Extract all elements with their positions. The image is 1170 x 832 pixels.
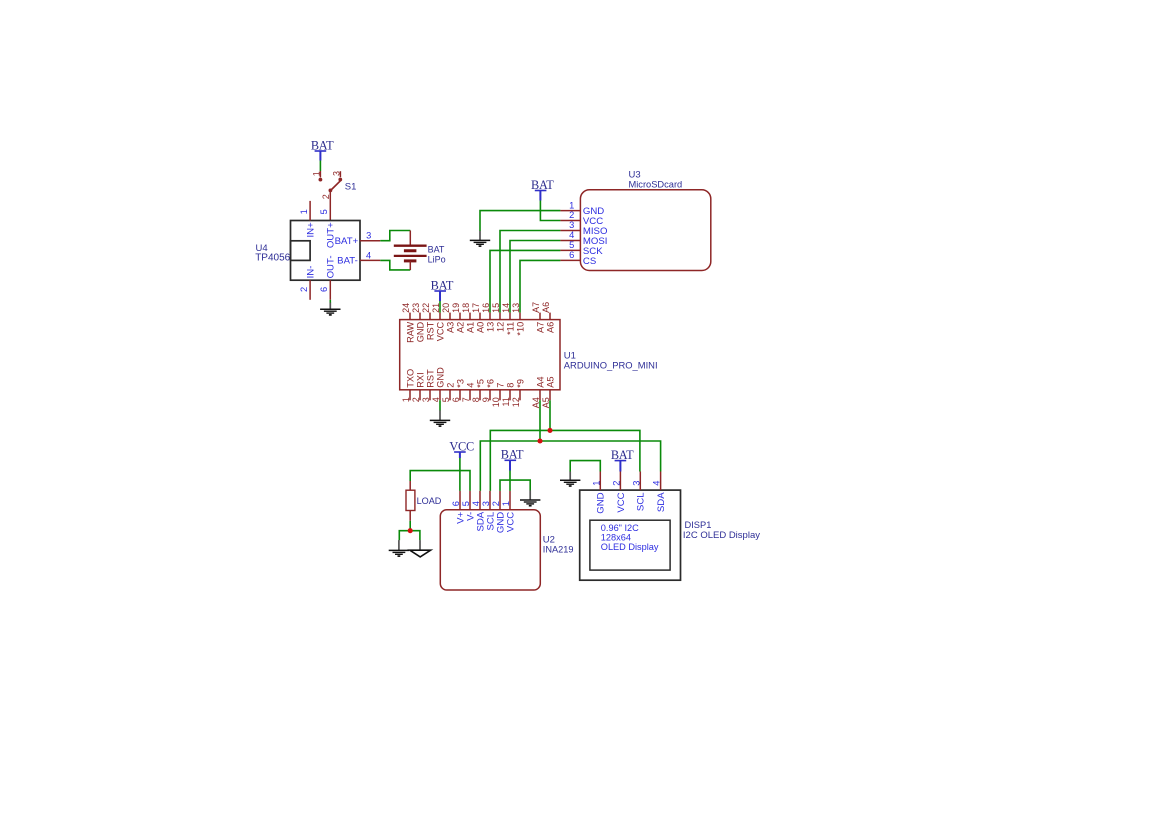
svg-text:CS: CS [583,256,596,267]
DISP1 value I2C OLED Display [683,530,760,541]
svg-text:LiPo: LiPo [428,255,446,265]
DISP1 pin 1 GND [591,472,606,514]
wire BAT flag to U3 VCC [540,201,560,221]
svg-text:*6: *6 [485,379,495,388]
svg-text:7: 7 [495,383,505,388]
U1 value ARDUINO_PRO_MINI [564,360,658,371]
wire LOAD bottom to grounds [399,521,420,541]
U2 value INA219 [543,544,574,554]
svg-text:VCC: VCC [435,321,445,341]
charger U4 body [291,221,361,281]
DISP1 pin 4 SDA [652,472,667,513]
svg-text:1: 1 [299,209,309,214]
U1 top pin 18 A1 [461,303,475,333]
svg-text:4: 4 [465,383,475,388]
U1 bottom pin 11 8 [501,383,515,407]
power flag BAT (mcu VCC) [431,278,454,301]
svg-text:2: 2 [321,194,331,199]
svg-text:BAT: BAT [311,138,334,152]
ground (power) triangle at LOAD [410,540,431,557]
U3 pin 1 GND [560,200,604,217]
wire U3 CS to U1 pin *10 [520,260,560,312]
resistor LOAD [406,481,442,521]
svg-text:ARDUINO_PRO_MINI: ARDUINO_PRO_MINI [564,360,658,371]
svg-text:TP4056: TP4056 [255,252,290,263]
svg-text:12: 12 [495,322,505,332]
wire U4 BAT- to battery - [380,260,410,270]
svg-text:4: 4 [569,230,574,240]
svg-text:6: 6 [569,250,574,260]
U1 top pin 21 VCC [431,303,445,341]
U4 pin 5 OUT+ [319,209,337,248]
svg-text:1: 1 [591,481,601,486]
svg-text:24: 24 [401,303,411,313]
svg-text:*10: *10 [515,322,525,336]
ground at U4 OUT- [320,303,340,315]
svg-text:10: 10 [491,397,501,407]
wire LOAD to U2 V- [410,471,470,491]
battery BAT LiPo [394,231,446,271]
U4 reference U4 [256,243,268,254]
U1 top pin A6 [541,302,555,333]
svg-text:5: 5 [441,397,451,402]
svg-text:S1: S1 [345,181,357,192]
svg-text:1: 1 [311,171,321,176]
svg-text:2: 2 [491,501,501,506]
svg-text:TXO: TXO [405,369,415,388]
U1 bottom pin 6 *3 [451,379,465,402]
svg-text:VCC: VCC [449,439,474,453]
svg-text:*5: *5 [475,379,485,388]
svg-text:OLED Display: OLED Display [601,542,659,552]
junction A5-SCL [547,428,552,433]
svg-text:A1: A1 [465,322,475,333]
wire U2 GND to ground [500,480,530,491]
svg-text:2: 2 [569,210,574,220]
power flag BAT (display) [611,448,634,472]
U1 bottom pin 3 RST [421,369,435,402]
SDA bus wire [480,441,660,491]
svg-text:VCC: VCC [616,492,627,512]
svg-text:3: 3 [569,220,574,230]
U1 bottom pin 5 2 [441,383,455,403]
U1 top pin 20 A3 [441,303,455,333]
power flag BAT (battery switch net) [311,138,334,160]
svg-text:DISP1: DISP1 [685,520,712,530]
svg-text:BAT: BAT [611,448,634,462]
wire U1 A4 to SDA bus [539,400,541,441]
svg-text:RAW: RAW [405,321,415,342]
svg-text:8: 8 [505,383,515,388]
wire U3 GND to ground [480,211,560,231]
U1 top pin 14 *11 [501,303,515,335]
U2 reference U2 [543,534,555,545]
U4 pin 1 IN+ [299,201,317,238]
wire U3 MOSI to U1 pin *11 [510,241,560,313]
svg-text:GND: GND [596,492,607,513]
svg-text:22: 22 [421,303,431,313]
svg-text:5: 5 [461,501,471,506]
svg-text:6: 6 [451,397,461,402]
svg-text:1: 1 [401,397,411,402]
svg-text:4: 4 [471,501,481,506]
svg-text:1: 1 [569,200,574,210]
U3 pin 2 VCC [560,210,603,227]
svg-text:5: 5 [319,209,329,214]
wire U4 BAT+ to battery + [380,231,410,241]
display DISP1 body [580,490,681,580]
U4 pin 3 BAT+ [335,231,381,247]
svg-text:13: 13 [485,322,495,332]
svg-text:BAT: BAT [431,278,454,292]
svg-text:4: 4 [366,250,371,260]
U1 bottom pin 10 7 [491,383,505,408]
svg-text:INA219: INA219 [543,544,574,554]
svg-text:4: 4 [652,481,662,486]
DISP1 pin 3 SCL [631,472,646,512]
wire U4 OUT- to ground [329,300,331,303]
power flag VCC [449,439,474,458]
svg-text:I2C OLED Display: I2C OLED Display [683,530,760,541]
svg-text:A2: A2 [455,322,465,333]
svg-text:BAT+: BAT+ [335,236,359,247]
svg-text:*3: *3 [455,379,465,388]
svg-text:6: 6 [319,287,329,292]
U2 pin 2 GND [491,491,506,533]
DISP1 pin 2 VCC [611,472,626,513]
SCL bus wire [490,430,640,491]
sensor U2 body [440,510,540,590]
U1 top pin 17 A0 [471,303,485,333]
U2 pin 1 VCC [501,491,516,532]
svg-text:2: 2 [411,397,421,402]
svg-text:13: 13 [511,303,521,313]
svg-text:RXI: RXI [415,372,425,387]
U1 bottom pin A4 [531,376,545,408]
U2 pin 4 SDA [471,491,486,532]
svg-text:12: 12 [511,397,521,407]
svg-text:3: 3 [631,481,641,486]
U4 value TP4056 [255,252,290,263]
svg-text:GND: GND [415,321,425,342]
svg-text:5: 5 [569,240,574,250]
U1 bottom pin 2 RXI [411,372,425,402]
svg-text:15: 15 [491,303,501,313]
U1 bottom pin 1 TXO [401,369,415,402]
svg-text:BAT: BAT [501,448,524,462]
svg-text:*11: *11 [505,322,515,335]
svg-text:MicroSDcard: MicroSDcard [629,180,683,190]
wire U3 MISO to U1 pin 12 [500,231,560,313]
svg-text:1: 1 [501,501,511,506]
ground at U2 GND [520,490,540,505]
sdcard U3 body [580,190,710,271]
svg-text:IN-: IN- [306,266,317,279]
U1 top pin 23 GND [411,303,425,342]
svg-text:19: 19 [451,303,461,313]
U2 pin 6 V+ [451,491,466,524]
svg-text:16: 16 [481,303,491,313]
svg-text:3: 3 [481,501,491,506]
ground at U1 GND [430,410,450,426]
mcu U1 body [400,320,560,390]
U3 reference U3 [629,170,641,181]
U1 bottom pin 7 4 [461,383,475,403]
svg-text:0.96" I2C: 0.96" I2C [601,523,639,533]
U1 top pin A7 [531,302,545,333]
wire DISP1 GND to ground [570,461,600,472]
svg-text:8: 8 [471,397,481,402]
svg-text:9: 9 [481,397,491,402]
svg-text:*9: *9 [515,379,525,388]
svg-text:VCC: VCC [505,512,516,532]
DISP1 screen text [601,523,659,552]
svg-text:A4: A4 [535,376,545,387]
svg-text:2: 2 [299,287,309,292]
svg-text:RST: RST [425,369,435,388]
wire U1 A5 to SCL bus [549,400,551,430]
svg-text:3: 3 [331,171,341,176]
svg-text:7: 7 [461,397,471,402]
ground at U3 GND [470,231,490,246]
svg-text:IN+: IN+ [306,222,317,238]
svg-text:A6: A6 [545,322,555,333]
svg-text:BAT: BAT [428,245,445,255]
svg-text:2: 2 [611,481,621,486]
U1 top pin 13 *10 [511,303,525,336]
U1 top pin 24 RAW [401,303,415,343]
U4 pin 4 BAT- [337,250,380,266]
U1 bottom pin 8 *5 [471,379,485,402]
svg-text:RST: RST [425,321,435,340]
U1 bottom pin 9 *6 [481,379,495,402]
svg-text:OUT-: OUT- [326,255,337,278]
U1 bottom pin A5 [541,376,555,408]
svg-text:A6: A6 [541,302,551,313]
U3 pin 3 MISO [560,220,607,237]
U4 pin 6 OUT- [319,255,337,299]
wire BAT flag to S1 pin 1 [319,161,321,172]
svg-text:LOAD: LOAD [417,496,442,506]
U1 top pin 22 RST [421,303,435,340]
junction LOAD-ground [408,528,413,533]
wire U3 SCK to U1 pin 13 [490,250,560,312]
U1 bottom pin 4 GND [431,367,445,402]
U3 pin 6 CS [560,250,596,267]
U4 pin 2 IN- [299,266,317,300]
svg-text:2: 2 [445,383,455,388]
ground (earth) at LOAD [389,540,409,556]
wire U1 GND pin 4 to ground [439,400,441,410]
svg-text:128x64: 128x64 [601,533,631,543]
U2 pin 5 V- [461,491,476,521]
U1 top pin 16 13 [481,303,495,332]
svg-text:BAT-: BAT- [337,256,358,267]
svg-text:BAT: BAT [531,178,554,192]
svg-text:14: 14 [501,303,511,313]
svg-text:A7: A7 [535,322,545,333]
svg-text:A7: A7 [531,302,541,313]
U3 pin 4 MOSI [560,230,607,247]
power flag BAT (ina219) [501,448,524,471]
svg-text:17: 17 [471,303,481,313]
U1 top pin 15 12 [491,303,505,332]
U1 reference U1 [564,351,576,362]
switch S1 [311,171,356,221]
svg-text:GND: GND [435,367,445,388]
svg-text:6: 6 [451,501,461,506]
svg-text:20: 20 [441,303,451,313]
svg-text:A0: A0 [475,322,485,333]
U3 value MicroSDcard [629,180,683,190]
junction A4-SDA [537,438,542,443]
U1 bottom pin 12 *9 [511,379,525,407]
U3 pin 5 SCK [560,240,603,257]
wire VCC to U2 V+ [459,458,461,491]
U1 top pin 19 A2 [451,303,465,333]
svg-text:3: 3 [421,397,431,402]
svg-text:A5: A5 [545,376,555,387]
svg-text:18: 18 [461,303,471,313]
wire BAT flag to U2 VCC [509,471,511,491]
svg-text:SDA: SDA [656,492,667,512]
svg-text:A3: A3 [445,322,455,333]
svg-text:11: 11 [501,397,511,406]
svg-text:3: 3 [366,231,371,241]
DISP1 reference DISP1 [685,520,712,530]
ground at DISP1 GND [560,472,580,487]
svg-text:SCL: SCL [636,492,647,511]
U2 pin 3 SCL [481,491,496,531]
svg-text:23: 23 [411,303,421,313]
wire BAT flag to U1 VCC pin 21 [439,301,441,313]
power flag BAT (sd card) [531,178,554,201]
